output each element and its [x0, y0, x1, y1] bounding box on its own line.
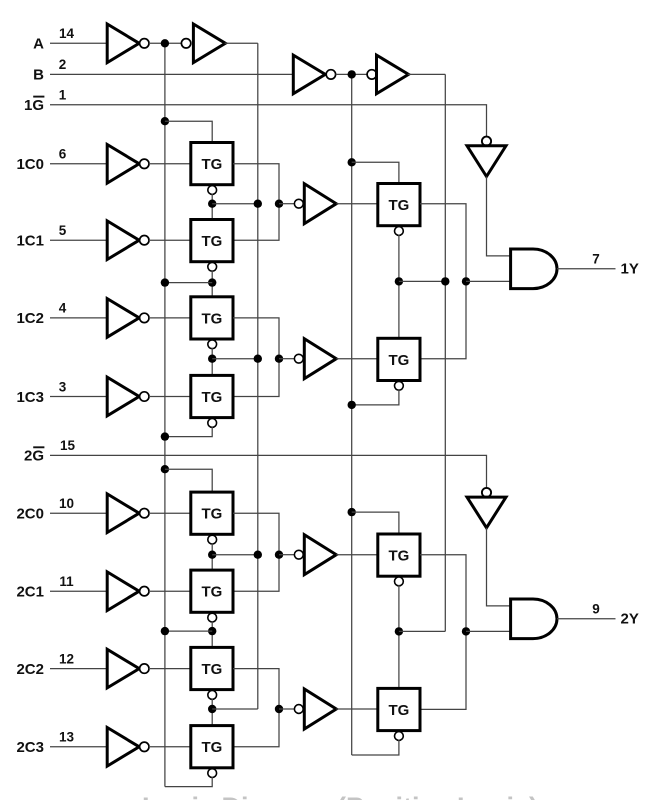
junction mux2 output node: [462, 627, 470, 635]
svg-text:TG: TG: [201, 661, 222, 678]
wire input 2C2: [50, 668, 107, 670]
inverter A first: [107, 24, 139, 63]
inverter 1C0: [107, 145, 139, 184]
junction A bus to pair2 controls: [254, 355, 262, 363]
bubble inverter 2C3 output: [140, 742, 149, 751]
wire pair3 buffer to TG stage2: [336, 554, 378, 556]
wire input 1C1: [50, 239, 107, 241]
wire TG 2C1 bubble to TG 2C2 top: [211, 621, 213, 647]
junction mux1 output node: [462, 277, 470, 285]
junction pair4 output node: [275, 705, 283, 713]
bubble TG B1 complement control: [395, 577, 404, 586]
buffer pair1: [304, 184, 336, 224]
wire stage2 group1 control to B bus: [399, 280, 445, 282]
bubble inverter 2C2 output: [140, 664, 149, 673]
svg-text:TG: TG: [388, 702, 409, 719]
transmission gate B1: [378, 534, 420, 576]
svg-text:4: 4: [59, 301, 67, 316]
inverter 2C1: [107, 572, 139, 611]
wire bus A vertical: [257, 43, 259, 709]
svg-text:1C0: 1C0: [16, 156, 44, 173]
svg-text:15: 15: [60, 438, 76, 453]
svg-text:2C2: 2C2: [16, 661, 44, 678]
inverter 2C2: [107, 649, 139, 688]
wire pair4 output to buffer: [279, 708, 294, 710]
svg-text:3: 3: [59, 379, 67, 394]
inverter 1C3: [107, 377, 139, 416]
wire A buffered to A bus: [225, 42, 258, 44]
buffer pair4: [304, 689, 336, 729]
wire TG B1 bubble to TG B2 top: [398, 585, 400, 689]
transmission gate 2C2: [191, 647, 233, 689]
junction /A to TG 2C0 control: [161, 465, 169, 473]
svg-text:TG: TG: [388, 197, 409, 214]
wire /A to TG 2C0 top: [165, 469, 212, 492]
svg-text:Logic Diagram (Positive Logic): Logic Diagram (Positive Logic): [142, 792, 538, 800]
transmission gate 2C0: [191, 492, 233, 534]
wire control pair2 to A bus: [212, 358, 258, 360]
AND gate 1Y: [511, 249, 557, 289]
junction control node stage2 group2: [395, 627, 403, 635]
junction control node pair2: [208, 355, 216, 363]
inverter 1C1: [107, 221, 139, 260]
svg-text:6: 6: [59, 147, 67, 162]
wire 1G inverter output to AND 1Y: [487, 177, 511, 256]
wire 2C2 inverted to TG: [149, 668, 191, 670]
wire pair4 buffer to TG stage2: [336, 708, 378, 710]
wire input 1C0: [50, 163, 107, 165]
bubble inverter A output: [140, 39, 149, 48]
junction A bus to pair3 controls: [254, 551, 262, 559]
bubble inverter 1C0 output: [140, 159, 149, 168]
junction /B to TG A1 control: [348, 158, 356, 166]
svg-text:13: 13: [59, 730, 75, 745]
wire 2C1 inverted to TG: [149, 590, 191, 592]
wire TG A1 / TG A2 outputs join: [420, 204, 466, 359]
wire B inverted to buffer: [336, 73, 368, 75]
wire /A to control node 2C1/2C2: [165, 630, 212, 632]
wire input 2G to inverter: [50, 455, 487, 488]
bubble inverter B output: [326, 70, 335, 79]
wire pair2 output to buffer: [279, 358, 294, 360]
wire 2C3 inverted to TG: [149, 746, 191, 748]
svg-text:TG: TG: [201, 584, 222, 601]
svg-text:10: 10: [59, 496, 74, 511]
bubble inverter 2C1 output: [140, 587, 149, 596]
svg-text:B: B: [33, 67, 44, 84]
wire TG 2C0 / TG 2C1 outputs join: [233, 513, 279, 591]
svg-text:9: 9: [592, 601, 600, 616]
AND gate 2Y: [511, 599, 557, 639]
junction control node pair1: [208, 200, 216, 208]
svg-text:TG: TG: [201, 310, 222, 327]
transmission gate A2: [378, 338, 420, 380]
junction B bus tap 281: [441, 277, 449, 285]
svg-text:2Y: 2Y: [621, 610, 639, 627]
svg-text:TG: TG: [388, 352, 409, 369]
wire TG A1 bubble to TG A2 top: [398, 235, 400, 339]
wire A inverted to buffer: [149, 42, 181, 44]
wire output 2Y: [557, 618, 616, 620]
bubble buffer B input: [367, 70, 376, 79]
wire 1C0 inverted to TG: [149, 163, 191, 165]
wire TG 2C2 / TG 2C3 outputs join: [233, 669, 279, 747]
junction control node 1C1/1C2: [208, 278, 216, 286]
wire input 2C1: [50, 590, 107, 592]
wire 2C0 inverted to TG: [149, 512, 191, 514]
wire input B: [50, 73, 293, 75]
inverter 1C2: [107, 299, 139, 338]
svg-text:TG: TG: [201, 156, 222, 173]
junction /B to TG B1 control: [348, 508, 356, 516]
wire bus /A vertical: [164, 43, 166, 786]
svg-text:TG: TG: [201, 506, 222, 523]
wire bus /B vertical: [351, 74, 353, 755]
svg-text:A: A: [33, 36, 44, 53]
junction pair3 output node: [275, 551, 283, 559]
svg-text:TG: TG: [201, 739, 222, 756]
svg-text:1Y: 1Y: [621, 260, 639, 277]
wire input A: [50, 42, 107, 44]
junction control node pair3: [208, 551, 216, 559]
wire input 1C3: [50, 396, 107, 398]
wire TG 1C1 bubble to TG 1C2 top: [211, 270, 213, 297]
wire TG 1C2 / TG 1C3 outputs join: [233, 318, 279, 397]
svg-text:12: 12: [59, 651, 74, 666]
junction /B bus tap 405: [348, 401, 356, 409]
wire input 1G to inverter: [50, 105, 487, 137]
wire pair3 output to buffer: [279, 554, 294, 556]
wire /B to TG B1 top: [352, 512, 399, 534]
inverter 2G: [467, 497, 506, 528]
wire /B to TG A1 top: [352, 162, 399, 183]
wire control pair3 to A bus: [212, 554, 258, 556]
svg-text:5: 5: [59, 223, 67, 238]
bubble inverter 1G input: [482, 137, 491, 146]
bubble TG 2C1 complement control: [208, 613, 217, 622]
wire pair1 output to buffer: [279, 203, 294, 205]
wire control pair1 to A bus: [212, 203, 258, 205]
transmission gate 2C1: [191, 570, 233, 612]
wire control pair4 to A bus end: [212, 708, 258, 710]
bubble TG B2 complement control: [395, 732, 404, 741]
junction pair2 output node: [275, 355, 283, 363]
bubble inverter 1C1 output: [140, 236, 149, 245]
svg-text:11: 11: [59, 574, 74, 589]
svg-text:14: 14: [59, 26, 75, 41]
svg-text:1G: 1G: [24, 97, 44, 114]
wire TG 2C2 bubble to TG 2C3 top: [211, 698, 213, 725]
bubble TG A2 complement control: [395, 381, 404, 390]
inverter 1G: [467, 146, 506, 177]
wire TG 1C3 bubble to /A bus: [165, 426, 212, 436]
transmission gate B2: [378, 688, 420, 730]
buffer pair2: [304, 339, 336, 379]
wire 2G inverter output to AND 2Y: [487, 528, 511, 606]
bubble TG 1C3 complement control: [208, 419, 217, 428]
wire 1C2 inverted to TG: [149, 317, 191, 319]
svg-text:2C0: 2C0: [16, 506, 44, 523]
wire TG 1C0 bubble to TG 1C1 top: [211, 194, 213, 220]
svg-text:TG: TG: [201, 233, 222, 250]
wire input 2C0: [50, 512, 107, 514]
junction control node stage2 group1: [395, 277, 403, 285]
transmission gate 1C2: [191, 297, 233, 339]
bubble inverter 2G input: [482, 488, 491, 497]
wire input 1C2: [50, 317, 107, 319]
wire /A to control node 1C1/1C2: [165, 282, 212, 284]
bubble buffer pair1 input: [294, 199, 303, 208]
inverter 2C3: [107, 728, 139, 767]
wire TG A2 bubble to /B bus: [352, 389, 399, 405]
wire pair1 buffer to TG stage2: [336, 203, 378, 205]
transmission gate 1C0: [191, 143, 233, 185]
bubble inverter 1C3 output: [140, 392, 149, 401]
transmission gate 2C3: [191, 726, 233, 768]
bubble buffer pair2 input: [294, 354, 303, 363]
wire mux2 output to AND 2Y: [466, 630, 511, 632]
svg-text:1C2: 1C2: [16, 310, 44, 327]
svg-text:TG: TG: [201, 389, 222, 406]
junction A bus to pair1 controls: [254, 200, 262, 208]
svg-text:2G: 2G: [24, 448, 44, 465]
wire /A to TG 1C0 top: [165, 121, 212, 142]
junction B inverted on /B bus: [348, 70, 356, 78]
junction /A bus tap 631: [161, 627, 169, 635]
wire 1C3 inverted to TG: [149, 396, 191, 398]
bubble TG 1C2 complement control: [208, 340, 217, 349]
bubble TG A1 complement control: [395, 227, 404, 236]
overbar 2G: [33, 446, 44, 448]
svg-text:1C3: 1C3: [16, 389, 44, 406]
inverter 2C0: [107, 494, 139, 533]
bubble inverter 2C0 output: [140, 509, 149, 518]
wire pair2 buffer to TG stage2: [336, 358, 378, 360]
junction /A to TG 1C0 control: [161, 117, 169, 125]
wire stage2 group2 control to B bus end: [399, 630, 445, 632]
svg-text:2: 2: [59, 57, 67, 72]
wire input 2C3: [50, 746, 107, 748]
bubble inverter 1C2 output: [140, 313, 149, 322]
bubble buffer pair4 input: [294, 705, 303, 714]
inverter B first: [293, 55, 325, 94]
wire TG 2C3 bubble to /A bus end: [165, 777, 212, 787]
wire output 1Y: [557, 268, 616, 270]
wire bus B vertical: [444, 74, 446, 631]
transmission gate 1C1: [191, 220, 233, 262]
bubble TG 1C0 complement control: [208, 186, 217, 195]
wire mux1 output to AND 1Y: [466, 280, 511, 282]
transmission gate 1C3: [191, 375, 233, 417]
svg-text:TG: TG: [388, 548, 409, 565]
svg-text:1: 1: [59, 88, 67, 103]
overbar 1G: [33, 96, 44, 98]
bubble buffer A input: [181, 39, 190, 48]
svg-text:2C1: 2C1: [16, 584, 44, 601]
svg-text:2C3: 2C3: [16, 739, 44, 756]
wire TG 2C0 bubble to TG 2C1 top: [211, 543, 213, 570]
buffer pair3: [304, 535, 336, 575]
svg-text:1C1: 1C1: [16, 233, 44, 250]
bubble buffer pair3 input: [294, 550, 303, 559]
bubble TG 2C2 complement control: [208, 691, 217, 700]
junction A inverted on /A bus: [161, 39, 169, 47]
junction control node 2C1/2C2: [208, 627, 216, 635]
junction /A bus tap 436: [161, 432, 169, 440]
wire 1C1 inverted to TG: [149, 239, 191, 241]
wire TG 1C2 bubble to TG 1C3 top: [211, 348, 213, 376]
junction pair1 output node: [275, 200, 283, 208]
buffer A second: [193, 24, 225, 63]
junction control node pair4: [208, 705, 216, 713]
wire TG B1 / TG B2 outputs join: [420, 555, 466, 710]
svg-text:7: 7: [592, 251, 600, 266]
wire B buffered to B bus: [408, 73, 446, 75]
wire TG 1C0 / TG 1C1 outputs join: [233, 164, 279, 240]
wire TG B2 bubble to /B bus end: [352, 740, 399, 756]
bubble TG 2C0 complement control: [208, 535, 217, 544]
transmission gate A1: [378, 184, 420, 226]
buffer B second: [377, 55, 409, 94]
bubble TG 1C1 complement control: [208, 262, 217, 271]
junction /A bus tap 282: [161, 278, 169, 286]
bubble TG 2C3 complement control: [208, 769, 217, 778]
